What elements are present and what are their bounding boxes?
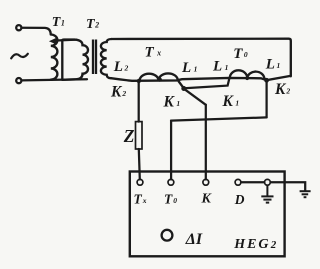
winding L1 of Tx (humps) <box>140 73 184 88</box>
transformer T2 core <box>93 40 96 75</box>
wire: top terminal to variac winding <box>22 28 51 35</box>
terminal T0 <box>168 179 174 185</box>
AC source top terminal <box>16 25 21 30</box>
wire: earth terminal to external ground <box>271 182 306 190</box>
enclosure bottom edge <box>111 76 291 81</box>
terminal Tx <box>137 179 143 185</box>
junction dot: K1 tap (Tx) <box>181 86 186 91</box>
junction dot: K2 tap (T0) <box>264 78 269 83</box>
wire: K vertical <box>205 105 207 180</box>
junction dot: L1 mid tap (T0) <box>245 77 249 81</box>
junction dot: Z tap <box>137 79 141 83</box>
junction dot: L1 mid tap (Tx) <box>158 77 162 81</box>
wire: diagonal to K terminal <box>184 89 206 105</box>
svg-text:HEG2: HEG2 <box>233 237 276 252</box>
svg-text:Z: Z <box>123 126 135 146</box>
wire: Z upper <box>138 81 140 122</box>
variac T1 tap arrow <box>49 37 77 44</box>
winding L1 of T0 (humps) <box>230 70 267 80</box>
terminal D <box>235 179 241 185</box>
impedance Z <box>136 122 143 149</box>
svg-text:K: K <box>201 192 213 207</box>
wire: D to earth terminal <box>241 181 264 183</box>
wire: K2 drop (right) <box>265 80 267 117</box>
indicator lamp <box>162 230 173 241</box>
external ground symbol <box>300 191 311 197</box>
transformer T2 secondary / winding L2 (enclosure left edge) <box>101 39 112 78</box>
AC source symbol <box>11 54 28 59</box>
terminal K <box>203 179 209 185</box>
variac T1 winding <box>51 35 58 80</box>
terminal E (earth) <box>265 179 271 185</box>
wire: tap link K1(Tx) to L1(T0) <box>185 79 230 89</box>
wire: bottom rail <box>22 79 88 80</box>
HEG2 device enclosure <box>130 172 285 257</box>
wire: K2 to T0 horizontal <box>171 117 267 120</box>
internal ground symbol <box>261 185 273 202</box>
transformer T2 primary <box>62 40 88 80</box>
wire: Z lower <box>139 149 140 179</box>
enclosure top and right edge <box>112 39 291 77</box>
AC source bottom terminal <box>16 78 21 83</box>
svg-text:D: D <box>234 192 245 207</box>
wire: T0 vertical <box>170 121 172 180</box>
svg-text:ΔI: ΔI <box>185 231 203 248</box>
